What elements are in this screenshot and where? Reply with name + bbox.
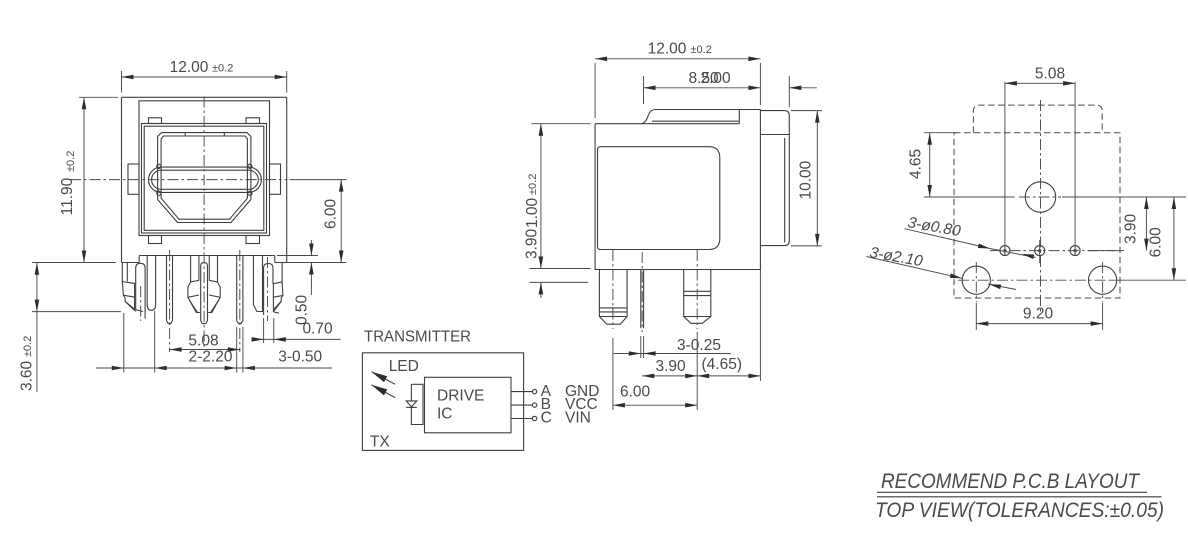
svg-text:(4.65): (4.65) xyxy=(702,356,743,373)
svg-text:3.60: 3.60 xyxy=(19,360,36,391)
svg-text:5.08: 5.08 xyxy=(1035,66,1065,83)
svg-text:3.90: 3.90 xyxy=(656,358,687,375)
svg-text:9.20: 9.20 xyxy=(1023,305,1054,322)
svg-text:12.00: 12.00 xyxy=(648,41,687,58)
svg-text:1.00: 1.00 xyxy=(524,197,541,228)
svg-text:TOP VIEW(TOLERANCES:±0.05): TOP VIEW(TOLERANCES:±0.05) xyxy=(875,499,1164,522)
svg-text:TRANSMITTER: TRANSMITTER xyxy=(364,329,471,346)
svg-text:3-0.50: 3-0.50 xyxy=(278,349,322,366)
svg-text:VIN: VIN xyxy=(565,410,591,427)
svg-text:±0.2: ±0.2 xyxy=(22,336,34,357)
svg-text:DRIVE: DRIVE xyxy=(437,387,484,404)
svg-text:RECOMMEND P.C.B LAYOUT: RECOMMEND P.C.B LAYOUT xyxy=(881,470,1141,493)
svg-text:4.65: 4.65 xyxy=(908,149,925,179)
svg-text:11.90: 11.90 xyxy=(59,177,76,215)
svg-text:6.00: 6.00 xyxy=(323,198,340,229)
svg-text:IC: IC xyxy=(437,405,453,422)
svg-text:TX: TX xyxy=(370,433,390,450)
svg-text:10.00: 10.00 xyxy=(798,160,815,199)
svg-text:±0.2: ±0.2 xyxy=(212,63,233,75)
svg-text:3.90: 3.90 xyxy=(1123,213,1140,244)
svg-text:LED: LED xyxy=(389,358,419,375)
svg-text:2.00: 2.00 xyxy=(701,70,732,87)
svg-text:6.00: 6.00 xyxy=(620,384,651,401)
svg-text:±0.2: ±0.2 xyxy=(527,174,539,195)
svg-text:C: C xyxy=(541,410,552,427)
svg-text:6.00: 6.00 xyxy=(1148,227,1165,258)
svg-text:12.00: 12.00 xyxy=(170,59,209,76)
svg-text:2-2.20: 2-2.20 xyxy=(189,349,233,366)
svg-text:±0.2: ±0.2 xyxy=(65,151,77,172)
svg-text:±0.2: ±0.2 xyxy=(691,44,712,56)
svg-text:3.90: 3.90 xyxy=(524,228,541,259)
svg-text:0.70: 0.70 xyxy=(303,320,334,337)
svg-text:3-0.25: 3-0.25 xyxy=(677,337,721,354)
svg-text:5.08: 5.08 xyxy=(188,332,218,349)
